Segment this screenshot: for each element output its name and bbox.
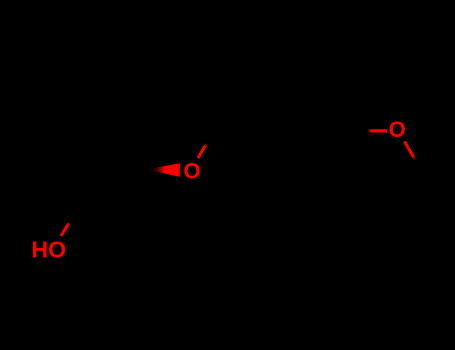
svg-text:O: O bbox=[389, 117, 406, 142]
svg-text:HO: HO bbox=[32, 237, 67, 263]
svg-text:O: O bbox=[183, 158, 200, 183]
